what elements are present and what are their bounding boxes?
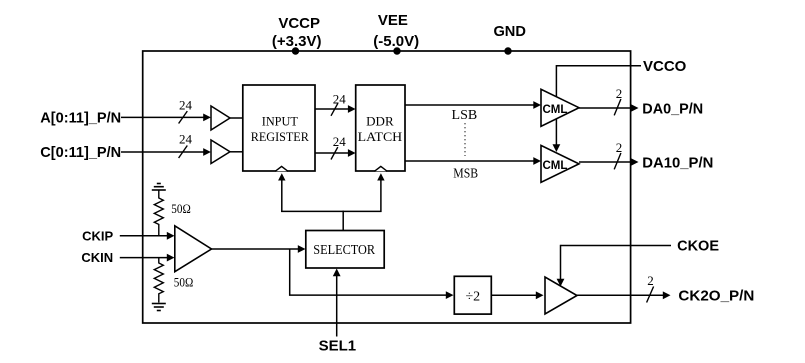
wire buffer A to register (230, 117, 243, 119)
block divide-by-2 (454, 276, 491, 314)
svg-text:24: 24 (333, 91, 347, 106)
svg-text:LSB: LSB (452, 108, 478, 123)
svg-text:2: 2 (616, 86, 623, 101)
svg-text:VCCP: VCCP (278, 15, 320, 32)
wire CK2O output (577, 291, 671, 299)
ground (top, flipped) (152, 184, 166, 197)
clock output buffer (545, 277, 577, 314)
svg-text:24: 24 (333, 134, 347, 149)
svg-text:÷2: ÷2 (465, 290, 480, 305)
svg-text:CK2O_P/N: CK2O_P/N (678, 288, 754, 305)
wire clock to latch wedge (377, 173, 384, 212)
svg-text:2: 2 (616, 140, 623, 155)
pin label CKIN (81, 250, 113, 265)
pin label CKIP (82, 228, 113, 243)
wire DA10 output (579, 158, 639, 166)
ground (bottom) (152, 304, 166, 311)
node VCCP dot (292, 47, 299, 54)
wire CKIN input (120, 254, 175, 262)
wire selector to clock rail (342, 211, 344, 231)
pin label CK2O_P/N (678, 288, 754, 305)
svg-text:REGISTER: REGISTER (251, 129, 309, 144)
wire DA0 output (579, 104, 639, 112)
wire register to latch (lower) (315, 149, 356, 157)
dotted separator (464, 123, 466, 156)
block INPUT REGISTER (243, 85, 315, 171)
svg-text:SELECTOR: SELECTOR (313, 243, 375, 258)
svg-text:CML: CML (543, 104, 568, 116)
wire clock to register wedge (278, 173, 285, 212)
svg-text:LATCH: LATCH (358, 129, 403, 144)
svg-text:INPUT: INPUT (262, 114, 298, 129)
chip outline (143, 51, 631, 323)
svg-text:(+3.3V): (+3.3V) (272, 33, 322, 50)
wire VCCO rail (556, 65, 641, 97)
wire CKIP input (120, 232, 175, 240)
wire buffer C to register (230, 151, 243, 153)
svg-text:CKIN: CKIN (81, 250, 113, 265)
wire latch to CML lower (MSB) (405, 157, 541, 165)
svg-text:CKIP: CKIP (82, 228, 113, 243)
node VEE dot (393, 47, 400, 54)
wire amp to selector (212, 245, 306, 253)
svg-text:50Ω: 50Ω (171, 201, 191, 216)
pin label C[0:11]_P/N (40, 144, 121, 161)
svg-text:24: 24 (179, 132, 193, 147)
svg-text:DA0_P/N: DA0_P/N (642, 100, 703, 117)
svg-text:GND: GND (493, 23, 526, 40)
power pin VEE label (373, 12, 419, 50)
CML driver U2 (541, 145, 579, 182)
wire divider to output buffer (491, 291, 543, 299)
pin label CKOE (677, 239, 719, 255)
LSB label (452, 108, 478, 123)
bus width 24 label (A) (179, 98, 193, 124)
svg-text:CML: CML (543, 160, 568, 172)
clock wedge (input register) (275, 166, 288, 171)
MSB label (453, 167, 478, 182)
svg-text:50Ω: 50Ω (174, 275, 194, 290)
pin label SEL1 (319, 338, 357, 355)
resistor R2 50ohm (154, 258, 193, 303)
clock wedge (ddr latch) (374, 166, 387, 171)
bus width 24 label (upper) (331, 91, 346, 115)
bus width 24 label (C) (179, 132, 193, 159)
svg-text:MSB: MSB (453, 167, 478, 182)
block SELECTOR (306, 231, 384, 269)
wire C input (121, 148, 211, 156)
wire A input (121, 114, 211, 122)
wire CML U1 to CML U2 (553, 119, 561, 152)
power pin GND label (493, 23, 526, 40)
pin label A[0:11]_P/N (40, 110, 121, 127)
svg-text:A[0:11]_P/N: A[0:11]_P/N (40, 110, 121, 127)
svg-text:DDR: DDR (366, 114, 394, 129)
svg-text:2: 2 (647, 273, 654, 288)
wire CKOE (557, 245, 671, 287)
pin label DA0_P/N (642, 100, 703, 117)
node GND dot (504, 47, 511, 54)
wire branch to divider (290, 249, 454, 299)
wire clock rail (281, 210, 381, 212)
buffer C (211, 140, 230, 164)
svg-text:VCCO: VCCO (643, 58, 687, 75)
svg-text:VEE: VEE (378, 12, 408, 29)
wire SEL1 input (333, 269, 341, 337)
pin label DA10_P/N (642, 154, 713, 171)
svg-text:SEL1: SEL1 (319, 338, 357, 355)
svg-text:DA10_P/N: DA10_P/N (642, 154, 713, 171)
bus width 2 label (DA10) (614, 140, 622, 169)
wire latch to CML upper (LSB) (405, 101, 541, 109)
pin label VCCO (643, 58, 687, 75)
power pin VCCP label (272, 15, 322, 50)
CML driver U1 (541, 89, 579, 126)
bus width 2 label (CK2O) (647, 273, 654, 303)
resistor R1 50ohm (154, 196, 191, 236)
clock input amp Q (175, 226, 212, 272)
bus width 24 label (lower) (331, 134, 346, 160)
block DDR LATCH (356, 85, 405, 171)
wire register to latch (upper) (315, 105, 356, 113)
svg-text:24: 24 (179, 98, 193, 113)
buffer A (211, 106, 230, 130)
svg-text:CKOE: CKOE (677, 239, 719, 255)
bus width 2 label (DA0) (614, 86, 622, 115)
svg-text:C[0:11]_P/N: C[0:11]_P/N (40, 144, 121, 161)
